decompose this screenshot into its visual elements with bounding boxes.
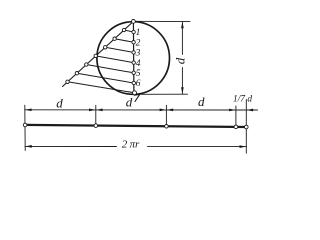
arrow right at tick3 [229,109,236,112]
ray mark 6 [75,72,78,75]
bottom tick 3 [235,106,237,128]
node 2 on diameter [132,41,135,44]
bottom tick 2 [165,105,167,127]
ray mark 3 [104,46,107,49]
node 3 on diameter [132,51,135,54]
ray mark 1 [122,28,125,31]
arrow right of 2 pi r [240,145,247,148]
svg-text:2 πr: 2 πr [122,138,140,150]
bottom extension line [137,93,188,95]
d dimension line vertical [181,22,183,55]
arrow left at tick2 [167,109,174,112]
ray mark 2 [113,37,116,40]
arrow up of d dimension [181,22,184,29]
svg-text:5: 5 [136,69,141,79]
rectified base line thick [25,125,246,127]
node on base line at tick4 [245,125,249,129]
node 5 on diameter [132,71,135,74]
ray mark 5 [85,63,88,66]
label 7 [134,94,140,101]
fan line 1 [124,30,134,32]
ray from top point for division into 7 parts [63,21,134,86]
svg-text:d: d [173,57,188,64]
fan line 7 [68,82,135,93]
fan line 3 [105,47,133,52]
2 pi r dimension line left part [25,145,117,147]
arrow left of 2 pi r [25,145,32,148]
svg-text:d: d [126,95,133,110]
svg-text:4: 4 [136,59,141,69]
fan line 6 [77,73,134,83]
vertical diameter line [132,21,135,93]
svg-text:d: d [198,94,205,109]
fan line 2 [115,39,134,43]
arrow right at tick1 [89,109,96,112]
svg-text:6: 6 [136,79,141,89]
ray mark 7 [66,80,69,83]
arrow left at tick0 [25,108,32,111]
svg-text:1: 1 [136,28,141,38]
node on base line at tick0 [23,123,27,127]
arrow left outside at tick4 [247,109,254,112]
bottom tick 1 [95,105,97,126]
node on base line at tick3 [234,125,238,129]
arrow right at tick2 [160,109,167,112]
bottom tick 0 [24,105,26,150]
node on base line at tick1 [94,124,98,128]
svg-text:2: 2 [136,38,141,48]
bottom tick 4 rightmost [245,100,247,154]
arrow down of d dimension [181,87,184,94]
node 7 bottom of diameter [133,91,137,95]
ray mark 4 [94,54,97,57]
fan line 4 [96,56,134,63]
fan line 5 [86,65,133,73]
arrow left at tick1 [96,109,103,112]
node 1 on diameter [132,30,135,33]
node 4 on diameter [132,61,135,64]
2 pi r dimension line right part [148,146,247,148]
svg-text:d: d [56,95,63,110]
svg-text:1/7 d: 1/7 d [233,95,252,105]
top extension line [136,20,191,22]
node top of diameter [132,20,136,24]
circle of diameter d [97,22,170,95]
svg-text:3: 3 [135,49,141,59]
1/7d outside arrow tail [246,109,257,111]
node 6 on diameter [132,81,135,84]
d segments dimension line [25,109,247,111]
node on base line at tick2 [165,125,169,129]
